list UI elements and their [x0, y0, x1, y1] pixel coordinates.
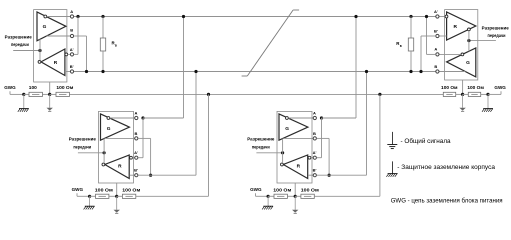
terminal A of U2: [135, 111, 138, 120]
wire GWG right end: [488, 93, 501, 95]
node U3 A junction: [320, 116, 323, 119]
transceiver U4 box (top-right): [445, 10, 478, 80]
wire U3 A' stub: [311, 157, 313, 159]
driver G enable circle U4: [461, 53, 464, 56]
svg-text:A': A': [434, 9, 438, 14]
wire U3 G output to B: [283, 137, 313, 139]
svg-text:100: 100: [29, 85, 37, 91]
wire U2 A' stub: [132, 157, 134, 159]
wire U4 B' riser: [421, 35, 436, 37]
terminal A' of U1: [70, 47, 74, 56]
node U1 B junction: [85, 70, 88, 73]
resistor 100 Ом (U3 ground b): [301, 188, 319, 199]
svg-text:B: B: [135, 131, 138, 136]
node GWG right junction 1: [461, 93, 464, 96]
wire U1 enable rail: [13, 50, 40, 52]
wire U1 A' riser: [77, 17, 79, 55]
protective earth under U2: [89, 196, 91, 206]
wire GWG U3 segment 2: [268, 195, 274, 197]
terminal A of U3: [313, 111, 316, 120]
wire U1 enable to R: [39, 51, 41, 61]
node U3 bus A junction: [354, 15, 357, 18]
transceiver U2 box: [99, 111, 134, 183]
signal common under U2: [116, 196, 118, 210]
terminal B' of U2: [134, 168, 138, 177]
node Rt-right top junction: [409, 15, 412, 18]
svg-text:R: R: [54, 60, 58, 66]
wire U4 A stub: [439, 53, 461, 55]
receiver input circle A' U2: [130, 156, 133, 159]
svg-text:Разрешение: Разрешение: [69, 137, 97, 142]
driver G of U3: [279, 114, 308, 140]
signal common under U1: [49, 94, 51, 107]
svg-text:G: G: [466, 60, 470, 66]
wire U1 ground tail: [49, 82, 51, 94]
terminal A' of U4: [434, 9, 439, 18]
terminal A' of U3: [313, 150, 317, 159]
resistor 100 Ом (U1 ground): [56, 85, 74, 96]
wire U4 enable to G: [468, 41, 470, 52]
svg-text:в: в: [400, 44, 402, 48]
wire U1 enable to G: [39, 39, 41, 50]
wire U2 G output to B: [105, 137, 135, 139]
receiver R of U3: [283, 155, 307, 179]
svg-text:B': B': [313, 168, 317, 173]
resistor 100 Ом (U3 ground a): [273, 188, 291, 199]
wire GWG rail long segment: [69, 93, 443, 95]
node U1 enable junction: [38, 49, 41, 52]
wire GWG right segment 2: [463, 93, 469, 95]
wire GWG U3 segment 4: [295, 195, 301, 197]
svg-text:передачи: передачи: [73, 145, 91, 150]
wire U3 enable to R: [282, 153, 284, 163]
wire U2 A' riser: [138, 157, 143, 159]
terminal A' of U2: [134, 150, 138, 159]
wire U2 enable rail: [78, 152, 104, 154]
terminal B of U1: [70, 28, 73, 38]
wire Rt-right lower lead: [410, 51, 412, 72]
receiver R enable circle U3: [281, 163, 284, 166]
wire U4 A' stub: [439, 16, 445, 18]
node U2 A junction: [141, 116, 144, 119]
svg-text:передачи: передачи: [252, 145, 270, 150]
svg-text:B: B: [313, 131, 316, 136]
node GWG right junction 2: [486, 93, 489, 96]
receiver input circle A' U1: [65, 53, 68, 56]
wire U2 ground tail: [116, 183, 118, 196]
wire U2 enable to G: [103, 139, 105, 153]
wire U2 A riser to bus A: [183, 17, 185, 119]
label transmit enable U2: [69, 137, 97, 150]
node U3 bus B junction: [365, 70, 368, 73]
resistor Rв right terminator: [396, 38, 413, 51]
svg-text:A': A': [70, 47, 74, 52]
driver G enable circle U3: [286, 117, 289, 120]
wire GWG rail segment 2: [24, 93, 29, 95]
transceiver U3 box: [277, 111, 312, 183]
wire U4 enable to R: [468, 31, 470, 41]
wire GWG U3 hook: [255, 193, 257, 196]
svg-text:G: G: [285, 126, 289, 132]
terminal B' of U4: [434, 28, 439, 37]
wire GWG U3 to rail: [314, 195, 380, 197]
wire GWG rail segment 3: [42, 93, 49, 95]
svg-text:100 Ом: 100 Ом: [441, 85, 458, 91]
node U4 enable junction: [467, 39, 470, 42]
wire bus line A (top): [74, 16, 436, 18]
wire U3 A rail: [322, 117, 357, 119]
svg-text:B': B': [134, 168, 138, 173]
node U2 bus A junction: [182, 15, 185, 18]
svg-text:G: G: [107, 126, 111, 132]
wire U4 enable rail: [469, 40, 496, 42]
wire Rt-left lower lead: [102, 51, 104, 72]
svg-text:A: A: [434, 47, 437, 52]
wire GWG left hook: [9, 91, 11, 94]
wire U3 enable to G: [282, 139, 284, 153]
wire U3 A riser to bus A: [355, 17, 357, 119]
wire GWG U2 segment 2: [90, 195, 96, 197]
wire GWG U2 segment 4: [117, 195, 123, 197]
label transmit enable U1: [5, 35, 33, 48]
resistor Rв left terminator: [100, 38, 117, 51]
svg-text:Разрешение: Разрешение: [482, 25, 510, 30]
svg-text:передачи: передачи: [11, 42, 29, 47]
wire GWG right segment 3: [481, 93, 488, 95]
wire U1 G output to B: [47, 35, 71, 37]
wire U2 G output to A: [110, 117, 135, 119]
driver G of U4: [447, 48, 476, 77]
node U2 bus B junction: [194, 70, 197, 73]
transceiver U1 box (top-left): [34, 10, 67, 82]
svg-text:GWG - цепь заземления блока пи: GWG - цепь заземления блока питания: [391, 196, 503, 204]
svg-text:100 Ом: 100 Ом: [273, 188, 291, 194]
resistor 100 Ом (U2 ground a): [95, 188, 113, 199]
wire U3 ground tail: [294, 183, 296, 196]
node GWG junction right riser: [378, 93, 381, 96]
node GWG U3 junction 2: [294, 195, 297, 198]
node GWG U2 junction 2: [115, 195, 118, 198]
receiver R enable circle U2: [102, 163, 105, 166]
svg-text:A: A: [70, 9, 73, 14]
terminal B of U3: [313, 131, 316, 140]
wire GWG rail segment 4: [50, 93, 56, 95]
node U2 B junction: [149, 174, 152, 177]
wire Rt-left upper lead: [102, 17, 104, 39]
wire U1 A' stub: [68, 53, 71, 55]
terminal B' of U1: [70, 64, 74, 73]
signal common under U4: [462, 94, 464, 107]
wire U4 B' stub: [439, 35, 447, 37]
wire U2 B' rail: [138, 174, 196, 176]
wire GWG U2 to rail: [136, 195, 209, 197]
node GWG U2 junction 1: [88, 195, 91, 198]
svg-text:100 Ом: 100 Ом: [301, 188, 319, 194]
svg-text:передачи: передачи: [488, 33, 506, 38]
svg-text:GWG: GWG: [4, 85, 16, 90]
wire U3 G output to A: [288, 117, 313, 119]
node U2 enable junction: [103, 151, 106, 154]
label transmit enable U3: [247, 137, 275, 150]
resistor 100 (U1 ground): [29, 85, 43, 96]
label transmit enable U4: [482, 25, 510, 38]
terminal A of U4: [434, 47, 439, 56]
resistor 100 Ом (U4 ground a): [441, 85, 458, 96]
svg-text:в: в: [115, 44, 117, 48]
node U3 enable junction: [281, 151, 284, 154]
protective earth under U1: [23, 94, 25, 108]
wire U3 enable rail: [256, 152, 282, 154]
legend signal common symbol: [387, 132, 397, 149]
wire Rt-right upper lead: [410, 17, 412, 39]
wire GWG U3 segment 3: [287, 195, 295, 197]
wire U2 enable to R: [103, 153, 105, 163]
wire U1 B' stub: [65, 71, 70, 73]
wire U1 B riser: [74, 35, 87, 37]
node U4 A junction: [425, 15, 428, 18]
resistor 100 Ом (U4 ground b): [467, 85, 484, 96]
svg-text:Разрешение: Разрешение: [247, 137, 275, 142]
line-break diagonal (cable continuation symbol): [242, 10, 300, 76]
svg-text:B: B: [434, 64, 437, 69]
wire GWG U2 segment 3: [109, 195, 117, 197]
driver G enable circle U2: [107, 117, 110, 120]
svg-text:Разрешение: Разрешение: [5, 35, 33, 40]
svg-text:A: A: [135, 111, 138, 116]
svg-text:- Защитное заземление корпуса: - Защитное заземление корпуса: [397, 164, 495, 171]
terminal A of U1: [70, 9, 73, 18]
svg-text:GWG: GWG: [494, 85, 506, 90]
receiver R enable circle U4: [468, 28, 471, 31]
legend protective earth symbol: [386, 161, 397, 176]
svg-text:100 Ом: 100 Ом: [122, 188, 140, 194]
svg-text:- Общий сигнала: - Общий сигнала: [401, 137, 451, 145]
svg-text:100 Ом: 100 Ом: [95, 188, 113, 194]
wire U4 A riser: [427, 53, 436, 55]
svg-text:B': B': [70, 64, 74, 69]
wire U4 ground tail: [462, 80, 464, 94]
node GWG junction left riser: [207, 93, 210, 96]
svg-text:A: A: [313, 111, 316, 116]
wire U3 B riser: [317, 137, 329, 139]
receiver R enable circle U1: [38, 61, 41, 64]
wire U3 B' riser to bus B: [366, 72, 368, 176]
wire U1 A to bus: [74, 16, 78, 18]
wire U3 A' riser: [317, 157, 322, 159]
wire GWG rail segment 1: [10, 93, 24, 95]
wire GWG U3 segment 1: [256, 195, 269, 197]
svg-text:GWG: GWG: [250, 187, 262, 192]
wire U2 B' stub: [130, 174, 135, 176]
svg-text:G: G: [43, 24, 47, 30]
protective earth under U3: [267, 196, 269, 206]
receiver R of U1: [41, 49, 65, 76]
node U3 B junction: [328, 174, 331, 177]
svg-text:GWG: GWG: [72, 187, 84, 192]
node Rt-left top junction: [101, 15, 104, 18]
driver G of U1: [37, 12, 66, 41]
receiver input circle A' U3: [308, 156, 311, 159]
node GWG junction 2: [48, 93, 51, 96]
node Rt-left bottom junction: [101, 70, 104, 73]
wire GWG U2 hook: [76, 193, 78, 196]
wire U2 B riser: [138, 137, 150, 139]
node U4 B' junction: [419, 70, 422, 73]
node GWG U3 junction 1: [267, 195, 270, 198]
svg-text:B': B': [434, 28, 438, 33]
node GWG junction 1: [22, 93, 25, 96]
svg-text:A': A': [313, 150, 317, 155]
driver G of U2: [101, 114, 130, 140]
receiver input circle A' U4: [445, 15, 448, 18]
svg-text:R: R: [297, 163, 301, 169]
terminal B' of U3: [313, 168, 317, 177]
svg-text:B: B: [70, 28, 73, 33]
wire U2 B' riser to bus B: [195, 72, 197, 176]
signal common under U3: [294, 196, 296, 210]
wire U4 B stub: [439, 71, 465, 73]
wire U3 B' rail: [317, 174, 367, 176]
svg-text:A': A': [134, 150, 138, 155]
receiver R of U2: [105, 155, 129, 179]
svg-text:R: R: [453, 24, 457, 30]
svg-text:100 Ом: 100 Ом: [467, 85, 484, 91]
terminal B of U4: [434, 64, 439, 73]
protective earth under U4: [487, 94, 489, 108]
terminal B of U2: [135, 131, 138, 140]
wire GWG U2 segment 1: [77, 195, 90, 197]
node Rt-right bottom junction: [409, 70, 412, 73]
wire U2 A rail: [143, 117, 184, 119]
wire U3 B' stub: [308, 174, 313, 176]
wire U1 G output to A: [47, 16, 70, 18]
wire GWG right segment 1: [456, 93, 463, 95]
svg-text:100 Ом: 100 Ом: [56, 85, 73, 91]
svg-text:R: R: [118, 163, 122, 169]
node U1 A junction: [76, 15, 79, 18]
driver G enable circle U1: [44, 15, 47, 18]
receiver R of U4: [447, 12, 476, 40]
wire bus line B (bottom): [74, 71, 436, 73]
resistor 100 Ом (U2 ground b): [122, 188, 140, 199]
